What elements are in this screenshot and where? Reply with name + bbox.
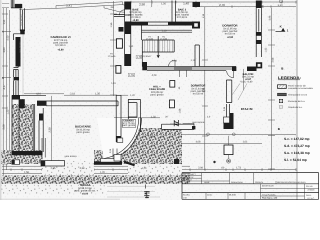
- svg-text:SEMNATURA: SEMNATURA: [231, 181, 243, 184]
- svg-text:1,55: 1,55: [110, 22, 113, 27]
- svg-text:1,35: 1,35: [95, 93, 100, 96]
- svg-text:1,50: 1,50: [151, 116, 156, 119]
- right wall top dark: [256, 1, 261, 9]
- door frame stubs: [180, 70, 187, 77]
- svg-text:TITLU PLANSA:: TITLU PLANSA:: [262, 193, 276, 196]
- legend symbol perete exterior: [278, 85, 287, 89]
- left wall dark seg mid: [16, 37, 21, 67]
- svg-text:h=2,38 m: h=2,38 m: [177, 16, 188, 19]
- svg-text:pard. gresie: pard. gresie: [76, 131, 90, 134]
- svg-text:1,40: 1,40: [183, 2, 189, 6]
- legend symbol termozidarie: [278, 93, 287, 96]
- kitchen bottom wall dark seg: [37, 101, 47, 106]
- svg-text:1,20: 1,20: [130, 94, 135, 97]
- scan speckle bottom edge: [0, 199, 120, 200]
- bath bottom wall dark seg1: [131, 22, 148, 25]
- corridor shelf lines: [142, 25, 193, 40]
- svg-text:2,76: 2,76: [219, 3, 225, 7]
- svg-text:1,73: 1,73: [236, 167, 241, 170]
- hol small node dark: [192, 126, 195, 129]
- column P2 lower: [116, 66, 121, 74]
- svg-text:BENEFICIAR:: BENEFICIAR:: [262, 185, 274, 188]
- svg-text:+2,80: +2,80: [227, 36, 234, 39]
- kitchen wall lower dark seg: [39, 114, 44, 121]
- svg-text:17,5x35: 17,5x35: [108, 55, 117, 58]
- grid vline mid-right: [204, 7, 206, 170]
- svg-text:+2,80: +2,80: [57, 49, 64, 52]
- grid vline camera-left: [22, 34, 24, 95]
- svg-text:SEF PROIECT: SEF PROIECT: [183, 173, 196, 176]
- svg-text:+2,80: +2,80: [132, 19, 139, 22]
- dark seg left of bar: [124, 161, 135, 166]
- svg-text:2,50: 2,50: [6, 35, 9, 40]
- svg-text:3,98: 3,98: [268, 15, 271, 20]
- white block on bottom bar: [114, 155, 121, 162]
- svg-text:A: A: [2, 29, 4, 33]
- svg-text:2,08: 2,08: [198, 167, 203, 170]
- stair arrow: [157, 36, 159, 58]
- stipple light mid2: [128, 164, 182, 176]
- kitchen-hall wall stub lower: [113, 149, 117, 158]
- left wall window upper: [20, 8, 24, 31]
- section marker triangle 1: [281, 28, 285, 31]
- svg-text:S.d. = 473,27 mp: S.d. = 473,27 mp: [284, 144, 310, 148]
- marker B circle bottom: [227, 159, 231, 163]
- camara bottom wall fill: [162, 124, 193, 129]
- svg-text:lam 90/240: lam 90/240: [19, 41, 22, 53]
- point marker dot: [213, 161, 215, 163]
- mid wall dark seg1: [142, 62, 147, 70]
- svg-text:.60: .60: [221, 167, 225, 170]
- survey circle 1: [207, 133, 210, 136]
- stair side wall: [141, 40, 143, 67]
- top dimension line row 1: [128, 1, 296, 3]
- svg-text:2,66: 2,66: [272, 57, 275, 62]
- svg-text:1,10: 1,10: [277, 4, 283, 7]
- kitchen south wall right piece: [101, 159, 121, 163]
- section mark small tick: [276, 30, 286, 32]
- svg-text:1:50: 1:50: [183, 196, 187, 199]
- grid vline stairs-left: [113, 1, 115, 96]
- svg-text:4,38: 4,38: [80, 167, 85, 170]
- svg-text:CERINTA: CERINTA: [255, 181, 264, 184]
- svg-text:17,5x35: 17,5x35: [146, 37, 154, 40]
- right border line: [296, 0, 298, 200]
- house bottom dark bar: [94, 161, 122, 165]
- terrace left block dark: [12, 160, 21, 165]
- bottom-left corner dark L vert: [19, 99, 24, 108]
- left dim vertical line 1: [2, 8, 4, 178]
- bath top wall line: [114, 15, 125, 17]
- scan noise overlay: [1, 0, 297, 200]
- stipple left lower strip: [2, 150, 43, 164]
- kitchen south wall left piece: [41, 161, 65, 166]
- grid vline kitchen-left: [50, 96, 52, 170]
- right wall column node: [256, 62, 262, 68]
- PLACEHOLDER-WALLS2: [19, 3, 275, 196]
- stair treads: [145, 40, 173, 52]
- roof edge slanted line upper: [56, 2, 123, 8]
- svg-text:spre terasa: spre terasa: [65, 155, 78, 158]
- svg-text:17,5x35: 17,5x35: [160, 37, 168, 40]
- svg-text:2,18: 2,18: [70, 93, 75, 96]
- left dim vertical line 2: [5, 8, 7, 170]
- camara dim line: [114, 117, 160, 119]
- column hol upper: [170, 81, 175, 88]
- svg-text:1,10: 1,10: [128, 45, 133, 48]
- title block mid cells: [261, 184, 319, 200]
- stamp glyph: [144, 191, 149, 198]
- svg-text:S.c. = 147,82 mp: S.c. = 147,82 mp: [284, 137, 310, 141]
- svg-text:spre terasa: spre terasa: [192, 121, 205, 124]
- stipple light mid gap: [42, 161, 94, 176]
- svg-text:Plan etaj sc. 1:50: Plan etaj sc. 1:50: [262, 197, 277, 200]
- vline to B circle: [228, 136, 230, 159]
- chimney top-left outline: [11, 0, 22, 8]
- title block frame: [182, 173, 319, 200]
- svg-text:4,23: 4,23: [152, 74, 157, 77]
- door arc dormitor2: [227, 71, 234, 78]
- svg-text:1,58: 1,58: [24, 171, 29, 174]
- hol dim line b: [181, 143, 262, 145]
- chimney cap dark: [15, 4, 22, 8]
- column hol lower: [169, 100, 174, 108]
- svg-text:lam 90/240: lam 90/240: [20, 14, 23, 26]
- mid wall outline: [142, 67, 236, 72]
- hol bottom dark L: [224, 113, 234, 129]
- terrace railing lines: [33, 104, 43, 152]
- dormitor wall vertical outline: [195, 45, 199, 67]
- kitchen bottom wall outline: [37, 101, 118, 106]
- top-left corner ticks: [2, 4, 9, 8]
- terrace left white block: [15, 160, 20, 164]
- top left node dark: [193, 2, 201, 7]
- svg-text:1,01: 1,01: [111, 82, 116, 85]
- title block header cells: [182, 173, 276, 184]
- svg-text:pard. gresie: pard. gresie: [150, 93, 164, 96]
- top dimension line row 2: [196, 6, 296, 8]
- left dim ticks: [2, 14, 11, 176]
- top wall node dark: [192, 22, 200, 29]
- svg-text:SCARA:: SCARA:: [183, 193, 191, 196]
- svg-text:4,08: 4,08: [196, 140, 201, 143]
- legend symbol grinda: [279, 106, 282, 109]
- left dim vertical line 3: [9, 10, 11, 160]
- svg-text:D.T.A.C.: D.T.A.C.: [308, 197, 316, 200]
- mid wall dark end: [232, 67, 236, 72]
- bottom tick: [145, 185, 147, 189]
- bottom dim line row 3: [2, 172, 190, 174]
- svg-text:1,10: 1,10: [191, 59, 196, 62]
- svg-text:Elemente din b.a.: Elemente din b.a.: [288, 100, 305, 103]
- left wall lower window: [14, 81, 19, 96]
- svg-text:DESENAT: DESENAT: [183, 179, 193, 182]
- bottom dim ticks: [11, 168, 296, 171]
- plan paper tint: [1, 0, 297, 200]
- svg-text:1,66: 1,66: [179, 108, 182, 113]
- bath wall dark seg1: [125, 2, 131, 10]
- camara wall white bar: [183, 124, 194, 129]
- dormitor2 wall vertical outline: [226, 80, 231, 117]
- arc interior whiteout: [97, 118, 140, 161]
- title block bottom cells: [206, 193, 245, 200]
- stipple terrace left: [12, 104, 34, 152]
- bath wall dark seg3: [125, 54, 131, 66]
- svg-text:5,08: 5,08: [3, 124, 6, 130]
- right wall column node2: [256, 40, 261, 44]
- svg-text:2,35: 2,35: [51, 167, 56, 170]
- bottom-left corner dark L horiz: [12, 95, 20, 99]
- stipple terrace right of arc: [130, 128, 182, 164]
- bottom dim line row 2: [2, 169, 296, 171]
- svg-text:NUME: NUME: [204, 181, 210, 184]
- svg-text:caramida cu termoizolatie: caramida cu termoizolatie: [288, 87, 314, 90]
- svg-text:±0,00: ±0,00: [82, 192, 89, 195]
- camara bottom wall outline: [162, 124, 195, 129]
- stipple band above title: [2, 176, 191, 185]
- bath2 left wall outline: [172, 1, 176, 23]
- svg-text:FAZA:: FAZA:: [306, 194, 312, 197]
- svg-text:4,10: 4,10: [36, 93, 41, 96]
- svg-text:pard. gresie: pard. gresie: [122, 124, 136, 127]
- svg-text:1,48: 1,48: [172, 59, 177, 62]
- svg-text:27/2020: 27/2020: [308, 189, 315, 192]
- bath wall dark seg2: [125, 22, 131, 35]
- camara hatch wall: [174, 120, 178, 126]
- right dim ticks: [110, 14, 275, 169]
- svg-text:1,01: 1,01: [243, 140, 248, 143]
- kitchen interior dim line: [64, 94, 128, 96]
- roof edge slanted line lower: [19, 5, 130, 13]
- svg-text:1,26: 1,26: [161, 3, 166, 6]
- balcony dark bar: [247, 67, 257, 72]
- grid vline right: [270, 8, 272, 170]
- stipple mid lower strip: [94, 150, 182, 164]
- grid vline bath: [151, 0, 153, 7]
- svg-text:+2,67: +2,67: [146, 135, 153, 138]
- room label CAMARA: [123, 119, 136, 128]
- column under hol: [174, 159, 179, 164]
- scan edge left: [0, 0, 1, 200]
- hol dim line: [182, 133, 296, 135]
- right wall dark seg2: [256, 32, 261, 36]
- left wall dark seg upper: [20, 30, 25, 35]
- kitchen-hall wall dark seg: [116, 136, 121, 142]
- column at bath wall: [119, 27, 124, 32]
- bottom dim line row 1: [2, 165, 190, 167]
- svg-text:1,02: 1,02: [265, 47, 268, 52]
- top dim ticks: [131, 1, 296, 8]
- svg-text:2,38: 2,38: [48, 127, 51, 133]
- svg-text:2,98: 2,98: [139, 3, 145, 7]
- svg-text:ETAJ+M: ETAJ+M: [241, 107, 253, 111]
- column P2 upper: [116, 39, 122, 48]
- bath bottom wall dark seg2: [168, 22, 192, 25]
- survey circle 2: [232, 133, 235, 136]
- mid wall dark seg2: [147, 67, 236, 70]
- small square outline near arc: [117, 138, 123, 142]
- svg-text:+0,35 +2,80: +0,35 +2,80: [240, 81, 253, 84]
- kitchen-hall wall outline: [116, 95, 121, 142]
- bath left wall outline: [125, 2, 131, 67]
- curved balcony wall inner arc: [104, 118, 139, 159]
- door arc stairs: [169, 60, 176, 67]
- svg-text:4,17: 4,17: [3, 84, 6, 90]
- column terrace: [224, 145, 233, 155]
- kitchen west wall stub: [42, 138, 45, 158]
- terrace bottom dark bar: [12, 151, 43, 155]
- camara wall dark bar: [170, 124, 181, 130]
- svg-text:PROIECTAT: PROIECTAT: [183, 176, 194, 179]
- svg-text:1,10: 1,10: [162, 29, 167, 32]
- svg-text:1,20: 1,20: [6, 109, 9, 114]
- svg-text:2,04: 2,04: [202, 87, 205, 92]
- camera top dim tick line: [24, 93, 64, 95]
- svg-text:DATA:: DATA:: [207, 193, 213, 196]
- svg-text:Grinda din b.a.: Grinda din b.a.: [288, 106, 303, 109]
- svg-text:08.2020: 08.2020: [229, 193, 236, 196]
- svg-text:5,41: 5,41: [66, 4, 72, 8]
- hol left wall outline: [128, 99, 140, 132]
- legend symbol elemente ba: [279, 99, 282, 102]
- svg-text:PR. NR.: PR. NR.: [306, 185, 313, 188]
- bottom faint lines: [107, 186, 160, 197]
- bath bottom wall outline: [131, 22, 192, 25]
- svg-text:REFERAT/EXPERTIZA NR./DATA: REFERAT/EXPERTIZA NR./DATA: [277, 181, 306, 184]
- grid vline terrace-left: [21, 99, 23, 152]
- left wall dark seg low: [14, 77, 20, 80]
- curved balcony wall outer arc: [105, 118, 142, 161]
- balcony dim line: [243, 69, 245, 90]
- bottom-left wall corner outline: [12, 95, 46, 151]
- svg-text:1,20: 1,20: [142, 167, 147, 170]
- hol white sq node: [224, 117, 230, 123]
- right ext wall outline: [256, 1, 261, 58]
- svg-text:Termozidarie 10 cm: Termozidarie 10 cm: [288, 94, 307, 97]
- svg-text:1,20: 1,20: [100, 171, 105, 174]
- svg-text:3,60: 3,60: [3, 47, 6, 53]
- left wall jog: [14, 34, 21, 77]
- svg-text:h=2,80 m: h=2,80 m: [55, 44, 66, 47]
- svg-text:1,51: 1,51: [3, 19, 6, 25]
- svg-text:B: B: [2, 76, 4, 80]
- grid bubble F top: [279, 0, 282, 3]
- svg-text:S.l. = 51,04 mp: S.l. = 51,04 mp: [284, 158, 307, 162]
- door arc bath: [119, 10, 125, 16]
- stipple sparse bottom left: [2, 184, 105, 194]
- svg-text:S.u. = 104,38 mp: S.u. = 104,38 mp: [284, 151, 310, 155]
